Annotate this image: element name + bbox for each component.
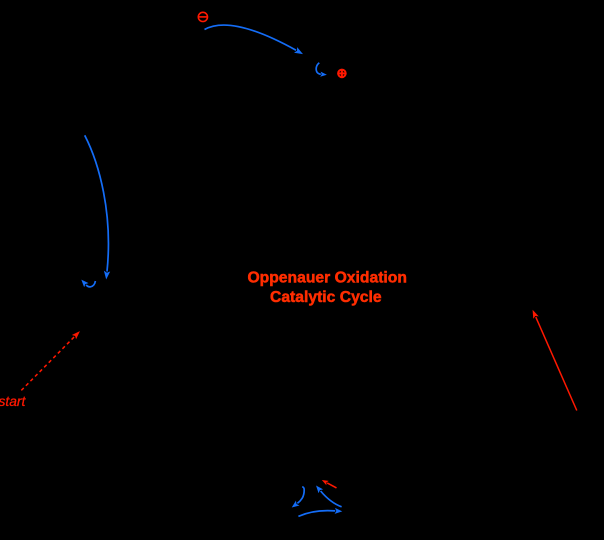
svg-text:Oppenauer Oxidation: Oppenauer Oxidation: [247, 270, 407, 287]
svg-text:start: start: [0, 394, 26, 409]
small red arrow (transition state): [327, 483, 336, 488]
long curved electron-pushing arrow (left side): [85, 135, 109, 271]
red dashed start arrow: [21, 337, 74, 391]
minus-charge symbol (circled minus) top: [198, 12, 207, 21]
curved electron-pushing arrow (top, hydride transfer): [205, 25, 297, 50]
small curled electron arrow near plus charge: [316, 63, 321, 74]
transition-state curved arrow (left of cycle): [297, 487, 304, 504]
transition-state curved arrow (middle, pointing up): [321, 491, 342, 507]
svg-text:Catalytic Cycle: Catalytic Cycle: [270, 289, 382, 306]
transition-state curved arrow (bottom, pointing right): [298, 511, 335, 517]
red straight arrow (right side, product release): [536, 317, 577, 410]
plus-charge symbol (circled plus): [338, 70, 346, 78]
small curled electron arrow (left, below long arrow): [86, 281, 95, 287]
